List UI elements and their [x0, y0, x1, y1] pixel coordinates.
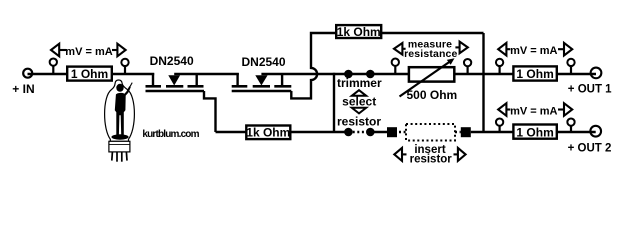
wire dotted segment square-to-dottedbox: [399, 131, 406, 133]
wire main line FET2 source to OUT1: [261, 73, 596, 75]
terminal + OUT 2: [590, 126, 601, 137]
label insert resistor with arrows: [394, 144, 465, 165]
potentiometer 500 Ohm: [400, 58, 458, 102]
wire vertical junction FET2 source node to bottom line: [333, 73, 335, 132]
node dot trimmer left (main line): [344, 70, 353, 79]
wire bottom line (gate bias line): [216, 131, 349, 133]
svg-text:+ OUT 1: + OUT 1: [568, 84, 612, 96]
svg-text:+ OUT 2: + OUT 2: [568, 143, 612, 155]
wire dotted segment dot-to-square: [370, 131, 387, 133]
label mV = mA (OUT1) with arrows: [498, 43, 572, 57]
kurtblum.com tube logo: [105, 80, 200, 162]
node dot resistor left (bottom line): [344, 128, 353, 137]
svg-text:1 Ohm: 1 Ohm: [516, 67, 553, 81]
resistor 1 Ohm (OUT2 sense): [513, 125, 556, 140]
label mV = mA (input) with arrows: [51, 44, 126, 58]
test point circle trimmer left: [392, 59, 399, 74]
svg-text:resistor: resistor: [410, 154, 453, 166]
body arrow: [168, 75, 180, 85]
svg-text:select: select: [342, 94, 376, 108]
source lead: [195, 73, 197, 86]
wire FET2 gate to top 1k loop with hop over main line: [291, 33, 483, 98]
wire solid segment square to OUT2 branch: [471, 131, 596, 133]
resistor 1k Ohm (top feedback): [336, 25, 381, 39]
resistor 1 Ohm (OUT1 sense): [513, 66, 556, 81]
label measure resistance with arrows: [394, 38, 468, 60]
dotted placeholder resistor box: [406, 124, 455, 141]
wire dotted segment dottedbox-to-square: [455, 131, 461, 133]
test point circle OUT1 right: [567, 59, 574, 74]
svg-text:resistor: resistor: [337, 114, 381, 128]
node dot resistor right (bottom line): [366, 128, 375, 137]
wire main line between FETs: [174, 73, 239, 75]
wire dotted segment dot-to-dot: [353, 131, 366, 133]
svg-text:mV = mA: mV = mA: [510, 45, 557, 57]
svg-text:mV = mA: mV = mA: [65, 46, 112, 58]
gate bar: [146, 90, 205, 92]
test point circle OUT2 left: [496, 118, 503, 132]
transistor Q1 DN2540: [146, 54, 216, 132]
node dot trimmer right (main line): [366, 70, 375, 79]
wire main line input section: [28, 73, 155, 75]
svg-text:500 Ohm: 500 Ohm: [407, 88, 458, 102]
test point circle input left: [50, 58, 57, 74]
svg-text:DN2540: DN2540: [242, 55, 286, 69]
resistor 1 Ohm (input sense): [67, 67, 112, 82]
svg-text:1k Ohm: 1k Ohm: [246, 126, 290, 140]
test point circle input right: [121, 59, 128, 74]
terminal + OUT 1: [591, 68, 602, 79]
svg-text:+ IN: + IN: [12, 82, 34, 96]
svg-text:resistance: resistance: [404, 48, 457, 60]
source lead: [281, 73, 283, 86]
channel contact segments: [232, 85, 248, 88]
square terminal insert-right: [461, 127, 471, 137]
svg-text:1 Ohm: 1 Ohm: [71, 67, 108, 81]
drain lead: [236, 73, 238, 86]
gate lead step down to bottom line: [204, 91, 216, 132]
body arrow: [255, 75, 267, 85]
channel contact segments: [146, 85, 162, 88]
square terminal insert-left: [387, 127, 397, 137]
test point circle OUT1 left: [496, 59, 503, 74]
svg-text:kurtblum.com: kurtblum.com: [142, 129, 199, 140]
label trimmer/select/resistor column: [337, 76, 382, 128]
svg-text:trimmer: trimmer: [337, 76, 382, 90]
test point circle trimmer right: [464, 59, 471, 74]
label mV = mA (OUT2) with arrows: [498, 103, 572, 117]
svg-text:1k Ohm: 1k Ohm: [337, 25, 381, 39]
terminal + IN: [23, 69, 32, 78]
wire vertical output node x484 from top loop to bottom line: [482, 33, 484, 132]
svg-text:mV = mA: mV = mA: [510, 105, 557, 117]
svg-text:1 Ohm: 1 Ohm: [516, 125, 553, 139]
svg-text:DN2540: DN2540: [150, 54, 194, 68]
gate bar: [232, 90, 292, 92]
resistor 1k Ohm (gate, bottom line): [246, 126, 290, 140]
test point circle OUT2 right: [567, 118, 574, 132]
drain lead: [152, 73, 154, 86]
transistor Q2 DN2540: [232, 55, 292, 91]
